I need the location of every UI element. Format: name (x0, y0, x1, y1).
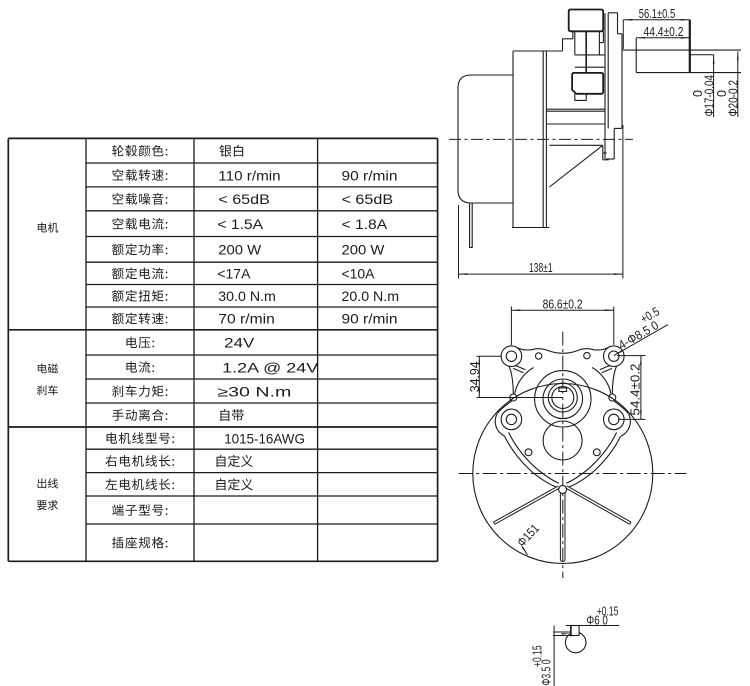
svg-text:24V: 24V (224, 336, 254, 351)
svg-text:90 r/min: 90 r/min (342, 168, 398, 183)
svg-text:54.4±0.2: 54.4±0.2 (629, 363, 643, 415)
svg-text:≥30 N.m: ≥30 N.m (217, 384, 291, 399)
svg-text:< 65dB: < 65dB (342, 192, 394, 207)
svg-text:+0.15: +0.15 (531, 645, 545, 667)
svg-text:< 1.5A: < 1.5A (217, 217, 264, 232)
svg-text:56.1±0.5: 56.1±0.5 (639, 7, 676, 21)
svg-text:138±1: 138±1 (529, 261, 553, 275)
svg-text:0: 0 (691, 90, 705, 97)
svg-text:0: 0 (715, 90, 729, 97)
svg-text:Φ151: Φ151 (514, 521, 542, 549)
svg-text:20.0 N.m: 20.0 N.m (342, 289, 400, 304)
svg-text:< 1.8A: < 1.8A (342, 217, 389, 232)
svg-text:90 r/min: 90 r/min (342, 312, 398, 327)
svg-text:44.4±0.2: 44.4±0.2 (644, 25, 684, 39)
svg-text:200 W: 200 W (342, 243, 385, 258)
svg-text:1.2A @ 24V: 1.2A @ 24V (222, 360, 318, 375)
svg-text:+0.15: +0.15 (597, 604, 619, 618)
svg-text:110 r/min: 110 r/min (218, 168, 280, 183)
svg-text:< 65dB: < 65dB (218, 192, 270, 207)
svg-text:+0.5: +0.5 (638, 304, 662, 326)
svg-text:86.6±0.2: 86.6±0.2 (543, 297, 583, 311)
svg-text:70 r/min: 70 r/min (218, 312, 274, 327)
svg-text:<17A: <17A (217, 267, 251, 282)
svg-text:34.94: 34.94 (468, 361, 482, 392)
svg-text:1015-16AWG: 1015-16AWG (224, 431, 305, 446)
svg-text:Φ20-0.2: Φ20-0.2 (727, 80, 741, 117)
svg-text:<10A: <10A (342, 267, 376, 282)
svg-text:200 W: 200 W (218, 243, 261, 258)
svg-text:30.0 N.m: 30.0 N.m (218, 289, 275, 304)
svg-text:4-Φ8.5 0: 4-Φ8.5 0 (616, 318, 661, 352)
